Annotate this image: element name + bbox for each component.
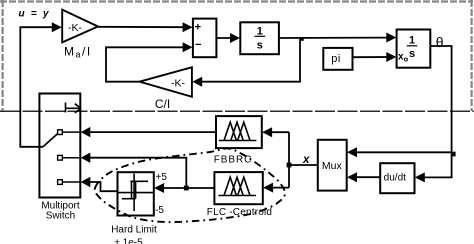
svg-text:du/dt: du/dt [384, 173, 406, 184]
svg-text:s: s [257, 40, 263, 52]
svg-text:s: s [409, 48, 415, 60]
svg-text:-K-: -K- [171, 78, 186, 90]
svg-text:−: − [195, 39, 201, 51]
svg-text:1: 1 [409, 35, 415, 47]
svg-text:Hard Limit: Hard Limit [111, 225, 157, 236]
svg-text:± 1e-5: ± 1e-5 [114, 238, 143, 244]
svg-text:pi: pi [331, 53, 341, 65]
svg-text:+: + [195, 22, 201, 34]
svg-text:C/I: C/I [155, 97, 170, 111]
svg-text:x: x [302, 154, 310, 166]
svg-text:u = y: u = y [19, 9, 50, 20]
svg-text:Switch: Switch [46, 211, 75, 222]
svg-text:Mux: Mux [322, 160, 343, 172]
svg-text:θ: θ [436, 34, 444, 50]
svg-text:-5: -5 [155, 205, 164, 216]
svg-text:FBBRC: FBBRC [214, 155, 252, 166]
svg-text:+5: +5 [156, 172, 168, 183]
svg-text:-K-: -K- [68, 22, 83, 34]
